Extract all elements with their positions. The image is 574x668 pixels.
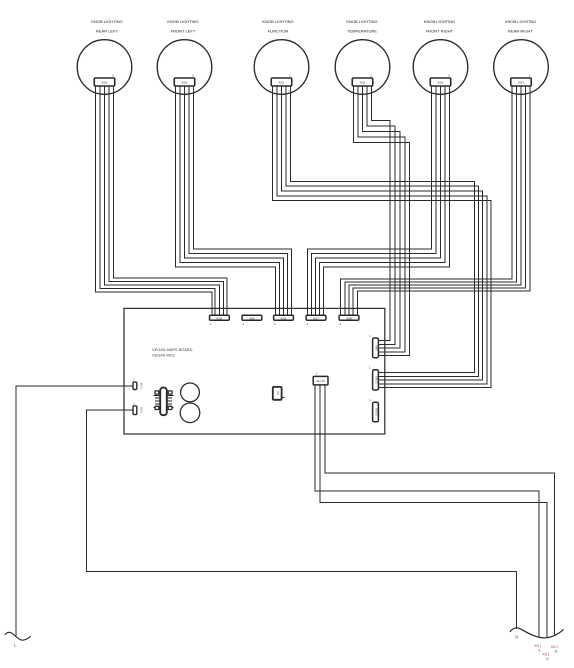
svg-text:KN 2: KN 2 bbox=[140, 383, 144, 389]
svg-text:KN6: KN6 bbox=[281, 316, 287, 320]
svg-text:KN 3: KN 3 bbox=[140, 407, 144, 413]
svg-text:KNOB LIGHTING: KNOB LIGHTING bbox=[505, 19, 536, 24]
svg-text:KN4: KN4 bbox=[216, 316, 222, 320]
svg-text:KN5: KN5 bbox=[249, 316, 255, 320]
svg-text:N: N bbox=[515, 634, 518, 639]
svg-text:FRONT LEFT: FRONT LEFT bbox=[171, 28, 196, 33]
svg-text:KN12: KN12 bbox=[375, 376, 379, 383]
svg-text:REAR RIGHT: REAR RIGHT bbox=[508, 28, 533, 33]
svg-text:VEGAS MAPS BOARD: VEGAS MAPS BOARD bbox=[152, 347, 193, 352]
svg-text:KN13: KN13 bbox=[375, 409, 379, 416]
svg-text:KN 10: KN 10 bbox=[317, 379, 325, 383]
svg-text:KNOB LIGHTING: KNOB LIGHTING bbox=[346, 19, 377, 24]
svg-text:/2: /2 bbox=[546, 657, 549, 661]
svg-text:REAR LEFT: REAR LEFT bbox=[96, 28, 119, 33]
svg-text:KN1: KN1 bbox=[279, 81, 285, 85]
svg-text:KN1: KN1 bbox=[182, 81, 188, 85]
svg-text:KN: KN bbox=[276, 391, 280, 395]
svg-text:/1: /1 bbox=[538, 648, 541, 652]
svg-text:FUNCTION: FUNCTION bbox=[268, 28, 289, 33]
svg-text:KN1: KN1 bbox=[518, 81, 524, 85]
svg-text:TEMPERATURE: TEMPERATURE bbox=[347, 28, 377, 33]
svg-text:FRONT RIGHT: FRONT RIGHT bbox=[426, 28, 454, 33]
svg-text:KNOB LIGHTING: KNOB LIGHTING bbox=[167, 19, 198, 24]
svg-text:VEGAS MCC: VEGAS MCC bbox=[152, 353, 176, 358]
svg-text:KN7: KN7 bbox=[313, 316, 319, 320]
svg-text:KNOB LIGHTING: KNOB LIGHTING bbox=[424, 19, 455, 24]
svg-text:/3: /3 bbox=[555, 649, 558, 653]
svg-text:KN1: KN1 bbox=[438, 81, 444, 85]
svg-text:KNOB LIGHTING: KNOB LIGHTING bbox=[262, 19, 293, 24]
svg-text:KN1: KN1 bbox=[360, 81, 366, 85]
svg-text:KN1: KN1 bbox=[102, 81, 108, 85]
svg-text:KN9: KN9 bbox=[375, 345, 379, 351]
svg-text:KNOB LIGHTING: KNOB LIGHTING bbox=[91, 19, 122, 24]
svg-text:KN8: KN8 bbox=[346, 316, 352, 320]
